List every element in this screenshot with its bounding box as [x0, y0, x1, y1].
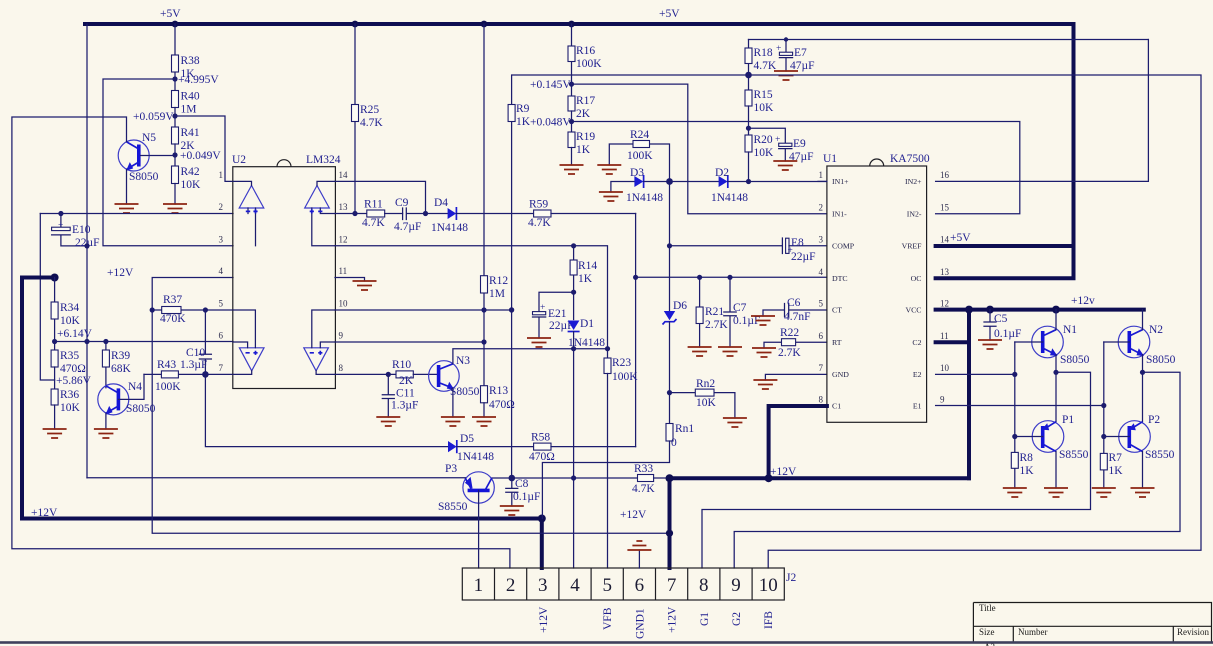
svg-text:3: 3 [538, 575, 548, 596]
svg-text:D6: D6 [673, 300, 687, 312]
svg-text:1: 1 [219, 170, 224, 180]
wire VREF pin14 +5V [936, 244, 1074, 248]
svg-text:E21: E21 [548, 308, 567, 320]
svg-text:10K: 10K [60, 402, 81, 414]
svg-text:C8: C8 [515, 478, 529, 490]
diode D2 [711, 167, 827, 204]
resistor R24 [609, 129, 669, 182]
ground under R36 [43, 429, 67, 438]
svg-text:D2: D2 [715, 167, 729, 179]
svg-text:2.7K: 2.7K [778, 347, 801, 359]
junction U2 pin7 node [202, 371, 209, 378]
resistor R59 [528, 199, 636, 230]
wire N3 collector line to R23 [453, 349, 608, 364]
wire D6 net vertical [669, 182, 671, 312]
resistor R34 [51, 278, 80, 351]
resistor R43 [144, 359, 233, 393]
resistor R20 [745, 134, 774, 182]
wire U1 pin10 E2 [936, 373, 1015, 375]
wire E7 top line [749, 39, 1149, 41]
svg-text:N4: N4 [128, 381, 142, 393]
svg-text:13: 13 [940, 267, 950, 277]
svg-text:R24: R24 [630, 129, 649, 141]
svg-text:1K: 1K [1020, 465, 1035, 477]
svg-text:+4.995V: +4.995V [178, 74, 219, 86]
+5V right drop to U1 pin13 [936, 24, 1074, 278]
svg-text:R43: R43 [157, 359, 176, 371]
svg-text:VFB: VFB [602, 607, 614, 630]
wire +5V left drop to +6.14V node [86, 24, 88, 478]
svg-text:100K: 100K [612, 371, 638, 383]
resistor R42 [172, 166, 202, 204]
junction R9 pin10 node [509, 307, 514, 312]
resistor R10 [392, 359, 439, 387]
svg-text:4.7K: 4.7K [528, 217, 551, 229]
svg-text:R42: R42 [181, 166, 200, 178]
svg-text:2: 2 [506, 575, 516, 596]
resistor R23 [604, 357, 638, 568]
svg-text:+5V: +5V [659, 8, 680, 20]
svg-text:S8550: S8550 [1059, 449, 1089, 461]
svg-text:S8050: S8050 [1146, 354, 1176, 366]
svg-text:+: + [540, 303, 545, 313]
svg-text:IN1+: IN1+ [832, 177, 849, 186]
sheet bottom border [0, 641, 1213, 644]
capacitor E10 [52, 211, 100, 249]
U1 pin8 C1 thick wire [769, 406, 827, 478]
capacitor E21 [533, 290, 577, 338]
svg-text:1: 1 [819, 170, 824, 180]
svg-text:C7: C7 [733, 302, 747, 314]
capacitor E9 [746, 126, 814, 163]
svg-text:12: 12 [940, 299, 949, 309]
transistor N3 [429, 355, 480, 398]
resistor R37 [150, 294, 233, 325]
wire pin2 corner down to +5.86V node [40, 214, 54, 381]
svg-text:J2: J2 [786, 572, 796, 584]
title block [973, 603, 1211, 646]
wire U2 pin9 line [335, 341, 484, 343]
svg-text:470Ω: 470Ω [529, 451, 555, 463]
svg-text:+12V: +12V [107, 267, 134, 279]
svg-text:8: 8 [339, 363, 344, 373]
diode D5 [448, 433, 534, 463]
wire N1 collector to +12v [1055, 310, 1057, 330]
capacitor E8 [667, 237, 827, 263]
svg-text:1K: 1K [576, 144, 591, 156]
transistor N1 [1015, 324, 1090, 366]
svg-text:+0.059V: +0.059V [133, 111, 174, 123]
svg-text:D3: D3 [630, 167, 644, 179]
op-amp U2B triangle [233, 310, 264, 374]
svg-text:R16: R16 [576, 45, 595, 57]
svg-text:C2: C2 [912, 338, 921, 347]
svg-text:U2: U2 [232, 154, 246, 166]
svg-text:R22: R22 [780, 327, 799, 339]
U2 pin11 ground [335, 278, 365, 282]
wire pin7 net down to D5 line [205, 374, 448, 446]
svg-text:N1: N1 [1063, 324, 1077, 336]
resistor R22 [764, 327, 827, 359]
J2 bottom labels [538, 606, 775, 639]
wire J2 pin3 thick drop [540, 519, 544, 569]
wire N1 emitter down [1055, 355, 1057, 422]
node +0.048V [569, 119, 574, 124]
svg-text:LM324: LM324 [306, 154, 341, 166]
transistor N4 [98, 374, 156, 415]
svg-text:7: 7 [819, 363, 824, 373]
ground under N4 [94, 429, 118, 438]
wire D6 to Rn2/Rn1 [669, 322, 671, 424]
svg-text:1.3µF: 1.3µF [180, 359, 207, 371]
resistor R14 [570, 246, 597, 320]
svg-text:4.7K: 4.7K [754, 60, 777, 72]
diode D3 with anode ground [599, 167, 719, 204]
svg-text:R21: R21 [705, 306, 724, 318]
svg-text:COMP: COMP [832, 242, 855, 251]
svg-text:G1: G1 [699, 612, 711, 626]
svg-text:E8: E8 [791, 237, 804, 249]
svg-text:IN1-: IN1- [832, 209, 847, 218]
wire pin13 line [335, 213, 367, 215]
wire N4 emitter to ground [105, 413, 107, 429]
svg-text:+5.86V: +5.86V [56, 375, 92, 387]
U1 pin7 GND wire [765, 374, 827, 380]
svg-text:C11: C11 [396, 388, 415, 400]
ground under E21 [527, 338, 551, 347]
node +0.059V [172, 113, 177, 118]
svg-text:Number: Number [1018, 627, 1048, 637]
svg-text:100K: 100K [627, 150, 653, 162]
ground under N3 [441, 417, 465, 426]
ground under R8 [1003, 488, 1027, 497]
svg-text:9: 9 [339, 331, 344, 341]
svg-text:10K: 10K [754, 147, 775, 159]
ground under P2 [1131, 488, 1155, 497]
svg-text:0.1µF: 0.1µF [994, 328, 1021, 340]
svg-text:2: 2 [219, 202, 224, 212]
svg-text:R18: R18 [754, 47, 773, 59]
svg-text:Size: Size [979, 627, 995, 637]
svg-text:C6: C6 [787, 297, 801, 309]
svg-text:1M: 1M [489, 288, 505, 300]
svg-text:P1: P1 [1062, 414, 1074, 426]
svg-text:KA7500: KA7500 [890, 153, 930, 165]
svg-text:+6.14V: +6.14V [57, 328, 93, 340]
svg-text:8: 8 [819, 395, 824, 405]
svg-text:9: 9 [940, 395, 945, 405]
resistor R36 [51, 389, 80, 429]
svg-text:R36: R36 [60, 389, 79, 401]
resistor R58 [529, 432, 636, 464]
svg-text:U1: U1 [823, 153, 837, 165]
junction D3/D2/R24/D6 [666, 178, 673, 185]
transistor N2 [1104, 324, 1176, 366]
svg-text:10K: 10K [60, 315, 81, 327]
resistor R11 [362, 199, 403, 230]
svg-text:7: 7 [667, 575, 677, 596]
svg-text:7: 7 [219, 363, 224, 373]
svg-text:1.3µF: 1.3µF [391, 400, 418, 412]
svg-text:8: 8 [699, 575, 709, 596]
svg-text:S8050: S8050 [450, 386, 480, 398]
ground under C8 [500, 506, 524, 515]
junction pin13 node [352, 211, 357, 216]
resistor R40 [172, 91, 200, 128]
ground under R24 left [597, 165, 621, 174]
svg-text:13: 13 [339, 202, 349, 212]
svg-text:R59: R59 [529, 199, 548, 211]
svg-text:10K: 10K [181, 179, 202, 191]
svg-text:4: 4 [819, 267, 824, 277]
resistor Rn1 [542, 423, 694, 519]
wire G2 net to J2 pin9 [734, 372, 1180, 568]
svg-text:15: 15 [940, 202, 950, 212]
svg-text:R58: R58 [531, 432, 550, 444]
wire U2 pin14 to C9 node [335, 181, 426, 213]
ground under R21 [688, 347, 712, 356]
svg-text:1N4148: 1N4148 [457, 451, 494, 463]
svg-text:+12V: +12V [620, 509, 647, 521]
svg-text:Rn2: Rn2 [696, 378, 715, 390]
wire +0.059V to U2 pin1 [175, 116, 233, 181]
U1 pin12 VCC thick line [936, 295, 1144, 314]
svg-text:6: 6 [635, 575, 645, 596]
svg-text:+12V: +12V [538, 606, 550, 633]
resistor R12 [481, 24, 509, 386]
transistor P3 [87, 463, 494, 568]
J2 pin6 inverted ground [620, 509, 651, 568]
capacitor E7 [776, 40, 815, 73]
ground under R42 [163, 204, 187, 213]
wire N5 collector net to J2 pin2 [12, 117, 510, 568]
capacitor C8 [506, 478, 541, 506]
svg-text:S8050: S8050 [1060, 354, 1090, 366]
ground under C6 [751, 316, 775, 325]
diode D1 [568, 318, 606, 349]
svg-text:R25: R25 [360, 104, 379, 116]
svg-text:S8550: S8550 [438, 501, 468, 513]
svg-text:R11: R11 [364, 199, 383, 211]
svg-text:R7: R7 [1109, 452, 1123, 464]
wire N2 collector to +12v end [1142, 310, 1144, 330]
wire IFB net J2 pin10 to R18/R15 node [749, 75, 1202, 568]
svg-text:1N4148: 1N4148 [626, 192, 663, 204]
node +6.14V / wire to U2 pin6 [52, 328, 233, 344]
ground under E7 [774, 71, 798, 80]
node +4.995V [172, 76, 177, 81]
svg-text:100K: 100K [155, 381, 181, 393]
svg-text:+12v: +12v [1071, 295, 1095, 307]
resistor R35 [51, 350, 86, 389]
svg-text:+12V: +12V [770, 466, 797, 478]
svg-text:S8050: S8050 [126, 403, 156, 415]
wire U2 pin10 line [335, 309, 512, 311]
svg-text:DTC: DTC [832, 274, 848, 283]
svg-text:C9: C9 [395, 197, 409, 209]
resistor R13 [481, 385, 515, 417]
svg-text:5: 5 [219, 299, 224, 309]
wire U1 pin4 DTC line [636, 276, 827, 278]
resistor R39 [102, 342, 131, 388]
ground under R19 [560, 165, 584, 174]
svg-text:S8050: S8050 [129, 171, 159, 183]
svg-text:+: + [58, 221, 63, 231]
junction R18/R15/R9 [745, 72, 752, 79]
thick vertical VCC to +12V line [967, 310, 971, 479]
svg-text:12: 12 [339, 234, 348, 244]
svg-text:R35: R35 [60, 350, 79, 362]
svg-text:2: 2 [819, 202, 824, 212]
svg-text:N5: N5 [142, 132, 156, 144]
svg-text:Title: Title [979, 603, 996, 613]
svg-text:4: 4 [570, 575, 580, 596]
ground under R13 [472, 417, 496, 426]
svg-text:+0.048V: +0.048V [530, 117, 571, 129]
svg-text:10: 10 [759, 575, 778, 596]
svg-text:10: 10 [339, 299, 349, 309]
svg-text:VCC: VCC [905, 306, 921, 315]
svg-text:6: 6 [219, 331, 224, 341]
wire N5 emitter to ground [126, 169, 128, 204]
U1 pin1 stub [818, 180, 827, 182]
svg-text:R33: R33 [634, 463, 653, 475]
ground under P1 [1044, 488, 1068, 497]
wire C8/R33 line [491, 477, 637, 479]
svg-text:1K: 1K [578, 273, 593, 285]
svg-text:R8: R8 [1020, 452, 1034, 464]
svg-text:470Ω: 470Ω [60, 363, 86, 375]
svg-text:+: + [776, 44, 781, 54]
svg-text:2.7K: 2.7K [705, 319, 728, 331]
svg-text:0: 0 [671, 437, 677, 449]
svg-text:22µF: 22µF [791, 251, 816, 263]
U1 pin11 C2 thick stub [936, 340, 969, 344]
svg-text:E1: E1 [913, 402, 922, 411]
+5V power rail [85, 8, 1074, 27]
svg-text:RT: RT [832, 338, 842, 347]
ground under C11 [376, 417, 400, 426]
svg-text:R20: R20 [754, 134, 773, 146]
svg-text:11: 11 [339, 266, 348, 276]
svg-text:E7: E7 [794, 47, 807, 59]
svg-text:VREF: VREF [902, 242, 923, 251]
svg-text:R37: R37 [163, 294, 182, 306]
svg-text:C10: C10 [186, 347, 205, 359]
resistor R17 [568, 95, 595, 132]
svg-text:IFB: IFB [763, 611, 775, 629]
svg-text:D1: D1 [580, 318, 594, 330]
svg-text:6: 6 [819, 331, 824, 341]
resistor R19 [568, 131, 595, 165]
svg-text:E9: E9 [793, 138, 806, 150]
svg-text:4.7K: 4.7K [632, 483, 655, 495]
wire +0.048V to U1 pin15 [572, 122, 1020, 214]
svg-text:R14: R14 [578, 260, 597, 272]
svg-text:GND1: GND1 [634, 608, 646, 639]
svg-text:1N4148: 1N4148 [711, 192, 748, 204]
svg-text:68K: 68K [111, 363, 132, 375]
transistor P1 [1015, 414, 1089, 488]
svg-text:R41: R41 [181, 127, 200, 139]
U2 pin numbers [219, 170, 224, 373]
capacitor C5 [984, 310, 1021, 340]
resistor R15 [745, 89, 774, 135]
svg-text:3: 3 [819, 235, 824, 245]
svg-text:4.7K: 4.7K [362, 217, 385, 229]
transistor P2 [1104, 414, 1175, 488]
+12V thick rail left [22, 267, 542, 519]
svg-text:10K: 10K [696, 397, 717, 409]
wire U2 pin4 +12V net [152, 278, 669, 534]
op-amp U2 box [232, 154, 341, 389]
svg-text:4.7K: 4.7K [360, 117, 383, 129]
svg-text:OC: OC [911, 274, 922, 283]
resistor R16 [568, 24, 602, 96]
svg-text:CT: CT [832, 306, 842, 315]
capacitor C7 [724, 275, 761, 347]
resistor R21 [696, 275, 728, 347]
wire +0.145V to U1 pin2 [572, 84, 827, 214]
svg-text:P3: P3 [445, 463, 457, 475]
wire U1 pin9 E1 [936, 405, 1104, 407]
resistor R9 [508, 75, 748, 478]
svg-text:R13: R13 [489, 385, 508, 397]
wire N2 emitter down [1142, 355, 1144, 422]
svg-text:+5V: +5V [160, 8, 181, 20]
resistor R41 [172, 127, 200, 166]
svg-text:D5: D5 [460, 433, 474, 445]
svg-text:+12V: +12V [31, 507, 58, 519]
svg-text:10K: 10K [754, 102, 775, 114]
svg-text:2K: 2K [399, 375, 414, 387]
svg-text:5: 5 [819, 299, 824, 309]
svg-text:N2: N2 [1149, 324, 1163, 336]
svg-text:+0.049V: +0.049V [180, 150, 221, 162]
capacitor C9 [394, 197, 448, 233]
node +0.145V [569, 82, 574, 87]
wire U2 pin2 line [40, 213, 233, 215]
node +0.049V [172, 152, 177, 157]
svg-text:P2: P2 [1148, 414, 1160, 426]
svg-text:16: 16 [940, 170, 950, 180]
svg-text:R38: R38 [181, 55, 200, 67]
ground under E9 [773, 161, 797, 170]
svg-text:S8550: S8550 [1145, 449, 1175, 461]
svg-text:11: 11 [940, 331, 949, 341]
ground under Rn2 [723, 418, 747, 427]
+12V thick horizontal [666, 466, 970, 482]
svg-text:R9: R9 [516, 103, 530, 115]
resistor R8 [1011, 342, 1034, 488]
svg-text:+5V: +5V [950, 232, 971, 244]
svg-text:R19: R19 [576, 131, 595, 143]
capacitor C10 [186, 307, 211, 374]
svg-text:GND: GND [832, 370, 849, 379]
svg-text:1K: 1K [516, 116, 531, 128]
svg-text:Revision: Revision [1177, 627, 1210, 637]
svg-text:IN2-: IN2- [907, 209, 922, 218]
svg-text:E10: E10 [72, 224, 91, 236]
svg-text:1M: 1M [181, 104, 197, 116]
svg-text:G2: G2 [731, 612, 743, 626]
svg-text:470K: 470K [160, 313, 186, 325]
svg-text:+12V: +12V [667, 606, 679, 633]
svg-text:N3: N3 [456, 355, 470, 367]
svg-text:5: 5 [602, 575, 612, 596]
svg-text:14: 14 [339, 170, 349, 180]
IC U1 KA7500 box [823, 153, 930, 422]
